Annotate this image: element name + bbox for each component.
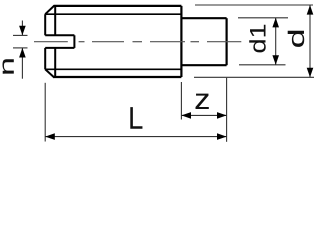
wire: screw body outline (slotted set screw side view) <box>45 6 226 78</box>
dog point top edge <box>181 17 226 19</box>
body right face <box>180 6 182 77</box>
L arrow right <box>217 133 227 140</box>
z / L extension right <box>226 78 228 142</box>
n dim line below <box>21 48 23 79</box>
d1 extension top <box>238 17 288 19</box>
dimension z <box>181 78 226 142</box>
L extension left <box>44 83 46 142</box>
thread root line top <box>45 13 181 15</box>
dimension d <box>194 5 314 77</box>
label z <box>196 94 209 109</box>
d1 extension bottom <box>239 64 286 66</box>
d1 dim line <box>275 18 277 65</box>
thread root line bottom <box>45 68 181 70</box>
slot end vertical <box>73 35 75 48</box>
z extension left <box>180 82 182 120</box>
end face vertical (lower segment) <box>44 48 46 69</box>
dimension d1 <box>238 18 288 65</box>
label L <box>130 107 142 129</box>
chamfer diagonal bottom-left <box>45 69 54 77</box>
label d (rotated) <box>288 31 305 47</box>
d extension bottom <box>194 76 314 78</box>
body bottom edge <box>54 76 182 78</box>
d dim line <box>309 5 311 77</box>
z arrow left <box>181 112 191 119</box>
chamfer circle vertical (upper segment) <box>54 6 56 35</box>
dog point right face <box>226 18 228 65</box>
dimension L <box>45 83 226 142</box>
slot top line <box>45 34 74 36</box>
n dim line above <box>21 21 23 36</box>
body top edge <box>54 5 182 7</box>
slot bottom line <box>45 47 74 49</box>
centerline (dash-dot axis) <box>34 41 241 43</box>
dimension n: slot width <box>13 21 28 79</box>
d arrow down <box>307 68 314 78</box>
n arrow down <box>19 26 26 36</box>
label n (rotated) <box>3 59 14 74</box>
chamfer diagonal top-left <box>45 6 54 15</box>
end face vertical (upper segment) <box>44 14 46 35</box>
label d1 (rotated) <box>249 25 266 53</box>
L dim line <box>45 136 226 138</box>
dog point bottom edge <box>181 64 226 66</box>
L arrow left <box>45 133 55 140</box>
d extension top <box>195 4 313 6</box>
z dim line <box>181 114 226 116</box>
z arrow right <box>217 112 227 119</box>
n extension tick top <box>13 34 28 36</box>
d1 arrow up <box>272 18 279 28</box>
chamfer circle vertical (lower segment) <box>54 48 56 77</box>
d1 arrow down <box>272 55 279 65</box>
n arrow up <box>19 48 26 58</box>
d arrow up <box>307 5 314 15</box>
n extension tick bottom <box>13 47 28 49</box>
